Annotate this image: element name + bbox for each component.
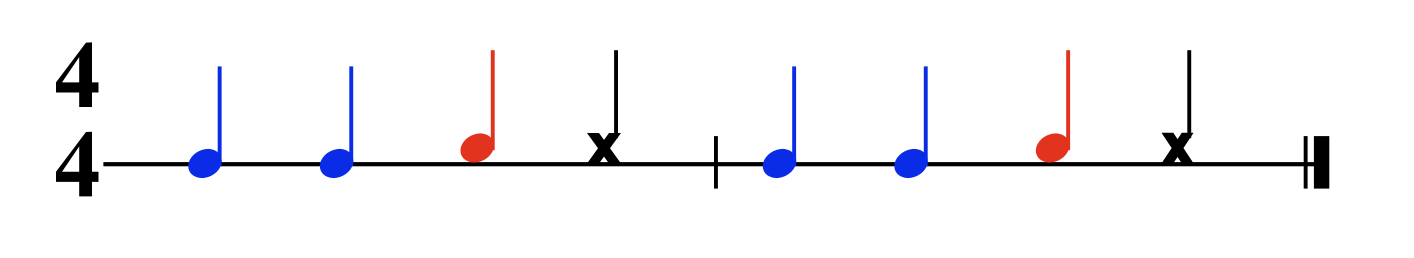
note 3 red quarter notehead [456,128,499,168]
time signature numerator 4 [56,42,99,107]
note 2 blue quarter notehead [315,143,358,183]
barline between measures [714,136,718,189]
note 7 red quarter stem [1066,50,1070,150]
note 5 blue quarter stem [792,66,796,166]
final barline thick [1314,136,1329,189]
note 1 blue quarter stem [218,66,222,166]
time signature denominator 4 [56,132,99,197]
staff line [103,162,1329,166]
note 3 red quarter stem [491,50,495,150]
note 5 blue quarter notehead [758,143,801,183]
note 4 x notehead stem [614,50,618,138]
note 1 blue quarter notehead [183,143,226,183]
note 8 x notehead stem [1187,50,1191,138]
note 8 x notehead [1162,133,1194,164]
note 6 blue quarter notehead [889,143,932,183]
note 2 blue quarter stem [349,66,353,166]
note 6 blue quarter stem [924,66,928,166]
note 4 x notehead [587,133,621,164]
note 7 red quarter notehead [1031,128,1074,168]
final barline thin [1304,136,1308,189]
